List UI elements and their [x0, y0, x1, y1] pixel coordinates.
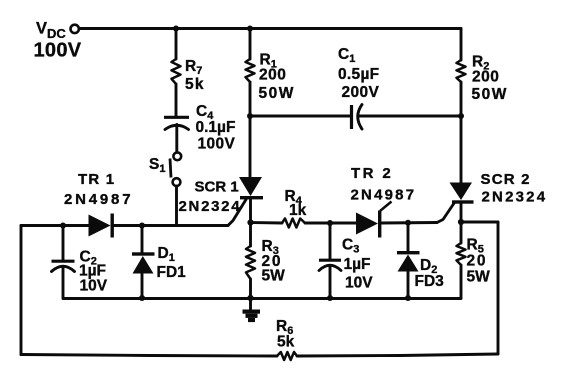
svg-text:TR 1: TR 1 [78, 171, 115, 188]
capacitor C3 [319, 260, 341, 270]
resistor R7 [172, 59, 181, 84]
wire R1 to mid rail [249, 82, 252, 116]
diode TR2 [356, 202, 392, 238]
svg-text:SCR 2: SCR 2 [481, 171, 531, 188]
node junction dot mid rail left [247, 113, 253, 119]
node junction dot SCR1 cathode node [247, 219, 253, 225]
wire common line [63, 297, 461, 300]
resistor R4 [282, 219, 305, 228]
node junction dot D1 top [139, 223, 145, 229]
wire SCR2 cathode [460, 204, 463, 222]
node junction dot D2 top [405, 220, 411, 226]
svg-text:2N4987: 2N4987 [64, 191, 133, 208]
wire C2 lower [62, 267, 65, 299]
svg-text:5W: 5W [262, 268, 286, 285]
node junction dot C2 top [60, 223, 66, 229]
thyristor SCR1 [239, 177, 263, 199]
svg-text:20: 20 [467, 253, 488, 270]
node junction dot C3 top [327, 220, 333, 226]
wire C2 upper [62, 226, 65, 260]
node junction dot D2 bottom [405, 295, 411, 301]
wire SCR2 gate diagonal [437, 203, 455, 223]
wire mid rail left segment [250, 115, 350, 118]
wire R2 to mid rail [460, 82, 463, 116]
resistor R6 [277, 352, 297, 360]
wire C4 to S1 [175, 125, 178, 153]
wire bottom rail left segment [21, 355, 277, 357]
svg-text:SCR 1: SCR 1 [195, 179, 239, 196]
node VDC terminal circle [71, 25, 79, 33]
svg-text:FD1: FD1 [157, 264, 187, 281]
wire node to right corner [461, 221, 498, 224]
svg-text:2N2324: 2N2324 [482, 189, 548, 206]
node junction dot SCR2 cathode node [458, 219, 464, 225]
wire mid rail right segment [359, 115, 462, 118]
node junction dot D1 bottom [139, 295, 145, 301]
resistor R3 [246, 223, 255, 299]
svg-text:2N4987: 2N4987 [351, 187, 417, 204]
svg-text:50W: 50W [259, 85, 295, 102]
wire SCR2 anode [460, 116, 463, 184]
wire top rail [80, 27, 462, 30]
svg-text:0.5µF: 0.5µF [338, 66, 379, 83]
node junction dot mid rail right [458, 113, 464, 119]
wire R7 to C4 [175, 84, 178, 116]
wire C3 upper [329, 223, 332, 259]
wire D1 lower [141, 274, 144, 299]
svg-text:5k: 5k [277, 334, 295, 351]
svg-text:FD3: FD3 [415, 273, 445, 290]
svg-text:1µF: 1µF [344, 256, 371, 273]
wire right vertical [497, 222, 500, 354]
wire SCR1 anode [249, 116, 252, 178]
wire left trigger line [21, 224, 89, 227]
wire TR2 to D2 [382, 221, 438, 224]
wire SCR1 cathode [249, 200, 252, 223]
svg-text:200: 200 [259, 67, 286, 84]
wire node to R4 [251, 221, 283, 224]
svg-text:1k: 1k [289, 202, 307, 219]
wire SCR1 gate diagonal [228, 200, 246, 226]
thyristor SCR2 [450, 183, 474, 204]
ground [243, 310, 261, 323]
wire R2 branch upper [460, 29, 463, 61]
wire D2 upper [407, 223, 410, 252]
svg-text:100V: 100V [198, 136, 236, 153]
svg-text:200: 200 [472, 69, 499, 86]
svg-text:5W: 5W [467, 269, 491, 286]
node junction dot C3 bottom [327, 295, 333, 301]
wire D2 lower [407, 272, 410, 299]
wire C3 lower [329, 266, 332, 299]
wire D1 upper [141, 226, 144, 254]
wire left vertical [20, 226, 23, 355]
svg-text:2N2324: 2N2324 [179, 198, 242, 215]
resistor R2 [457, 60, 466, 82]
wire bottom rail right segment [297, 354, 498, 356]
node junction dot R7 top [173, 26, 179, 32]
node junction dot R1 top [247, 26, 253, 32]
svg-text:10V: 10V [345, 275, 373, 292]
svg-text:10V: 10V [80, 278, 108, 295]
diode TR1 [89, 214, 114, 238]
wire R7 branch upper [175, 29, 178, 60]
wire R4 to C3 [305, 222, 356, 225]
wire R1 branch upper [249, 29, 252, 60]
svg-text:5k: 5k [185, 76, 205, 93]
diode D1 [132, 252, 155, 273]
svg-text:100V: 100V [34, 40, 82, 62]
wire S1 to trigger line [175, 186, 178, 226]
node junction dot R3 bottom [247, 295, 253, 301]
svg-text:0.1µF: 0.1µF [196, 119, 236, 136]
capacitor C1 [352, 105, 363, 130]
resistor R5 [457, 222, 466, 298]
svg-text:200V: 200V [342, 84, 380, 101]
capacitor C2 [52, 261, 75, 271]
wire ground stem [249, 298, 252, 310]
switch S1 [170, 152, 181, 186]
svg-text:50W: 50W [472, 86, 508, 103]
capacitor C4 [164, 117, 189, 129]
diode D2 [397, 251, 420, 272]
resistor R1 [246, 59, 255, 82]
wire TR1 cathode to gate line [114, 224, 228, 227]
svg-text:TR 2: TR 2 [351, 165, 393, 182]
